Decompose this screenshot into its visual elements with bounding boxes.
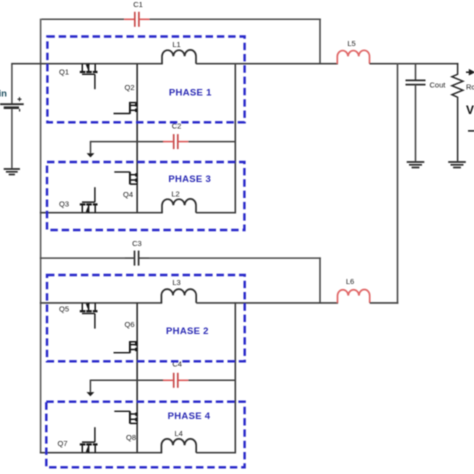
wire L2 to output rail: [196, 212, 236, 214]
inductor L4: [161, 429, 196, 453]
transistor Q5: [59, 303, 98, 329]
resistor Ro: [452, 63, 474, 161]
svg-text:Q8: Q8: [126, 433, 136, 442]
wire L4 to output rail: [196, 452, 236, 454]
svg-text:L3: L3: [172, 278, 180, 287]
wire switch-node column phases 2/4: [136, 303, 138, 454]
wire C1 drop to phase output node: [319, 19, 321, 65]
svg-text:PHASE 2: PHASE 2: [166, 326, 209, 337]
wire phase2 input (rail to L3): [40, 302, 162, 304]
wire phase3 left (rail to L2): [40, 212, 163, 214]
svg-text:Q6: Q6: [124, 320, 134, 329]
phase box PHASE 2: [47, 275, 245, 361]
ground (Cout): [407, 162, 425, 168]
svg-text:C3: C3: [132, 239, 142, 248]
wire L6 to output riser: [370, 302, 399, 304]
wire phase 1/3 output rail vertical: [234, 63, 236, 214]
svg-text:L2: L2: [171, 189, 179, 198]
capacitor C2: [163, 122, 188, 150]
wire from C1 right lead to drop corner: [149, 18, 320, 20]
svg-text:C1: C1: [133, 0, 143, 9]
inductor L1: [162, 40, 196, 64]
wire C4 left segment with return arrow: [87, 380, 164, 397]
phase box PHASE 4: [46, 402, 244, 468]
wire C2 left segment with return arrow: [87, 141, 164, 158]
phase box PHASE 1: [47, 37, 244, 123]
wire Vin rail (left vertical): [40, 19, 42, 454]
wire switch-node column phases 1/3: [136, 64, 138, 214]
inductor L6: [338, 277, 370, 303]
svg-text:PHASE 1: PHASE 1: [169, 88, 212, 99]
transistor Q7: [57, 427, 97, 453]
svg-text:L4: L4: [175, 429, 183, 438]
node Vo arrow: [466, 69, 474, 76]
ground (battery): [4, 169, 20, 175]
svg-text:Q4: Q4: [123, 190, 133, 199]
wire top link from Vin rail to C1 left lead: [41, 18, 124, 20]
svg-text:Q5: Q5: [59, 304, 69, 313]
node Vin label: [0, 89, 7, 100]
svg-text:PHASE 3: PHASE 3: [168, 174, 211, 185]
svg-text:V: V: [466, 103, 474, 117]
svg-text:Q1: Q1: [59, 67, 69, 76]
svg-text:L6: L6: [346, 277, 354, 286]
transistor Q4: [114, 172, 137, 199]
svg-text:PHASE 4: PHASE 4: [168, 411, 211, 422]
wire phase1 input (battery to L1): [11, 63, 163, 65]
wire output riser vertical: [397, 63, 399, 304]
battery Vin: [0, 64, 24, 169]
transistor Q8: [114, 411, 137, 442]
wire C3 drop to phase output node: [319, 257, 321, 303]
capacitor C1: [124, 0, 149, 27]
ground (Ro): [448, 162, 466, 168]
wire C3 to drop: [149, 257, 321, 259]
transistor Q3: [59, 187, 98, 213]
transistor Q6: [114, 320, 138, 353]
capacitor Cout: [406, 63, 447, 161]
wire L1 to L5: [196, 63, 338, 65]
wire C2 right segment: [188, 141, 236, 143]
svg-text:Q3: Q3: [59, 199, 69, 208]
svg-text:L5: L5: [347, 39, 355, 48]
svg-text:Ro: Ro: [466, 83, 474, 92]
inductor L5: [337, 39, 369, 64]
svg-text:in: in: [0, 89, 7, 100]
svg-text:Q2: Q2: [124, 83, 134, 92]
inductor L2: [162, 189, 196, 212]
wire C3 link (rail to drop corner): [40, 257, 125, 259]
wire phase4 left (rail corner to L4): [40, 452, 162, 454]
wire phase 2/4 output rail vertical: [234, 302, 236, 453]
svg-text:L1: L1: [172, 40, 180, 49]
phase box PHASE 3: [47, 162, 244, 230]
capacitor C3: [125, 239, 149, 266]
node Vo minus: [468, 130, 474, 132]
wire C4 right segment: [188, 379, 236, 381]
inductor L3: [161, 278, 196, 303]
svg-text:Q7: Q7: [57, 439, 67, 448]
capacitor C4: [163, 359, 188, 387]
node Vo label: [466, 103, 474, 117]
transistor Q1: [59, 64, 98, 89]
wire L3 to L6: [196, 302, 338, 304]
svg-text:Cout: Cout: [430, 80, 447, 89]
wire output rail (L5 to Ro corner): [370, 63, 459, 65]
transistor Q2: [114, 83, 138, 114]
